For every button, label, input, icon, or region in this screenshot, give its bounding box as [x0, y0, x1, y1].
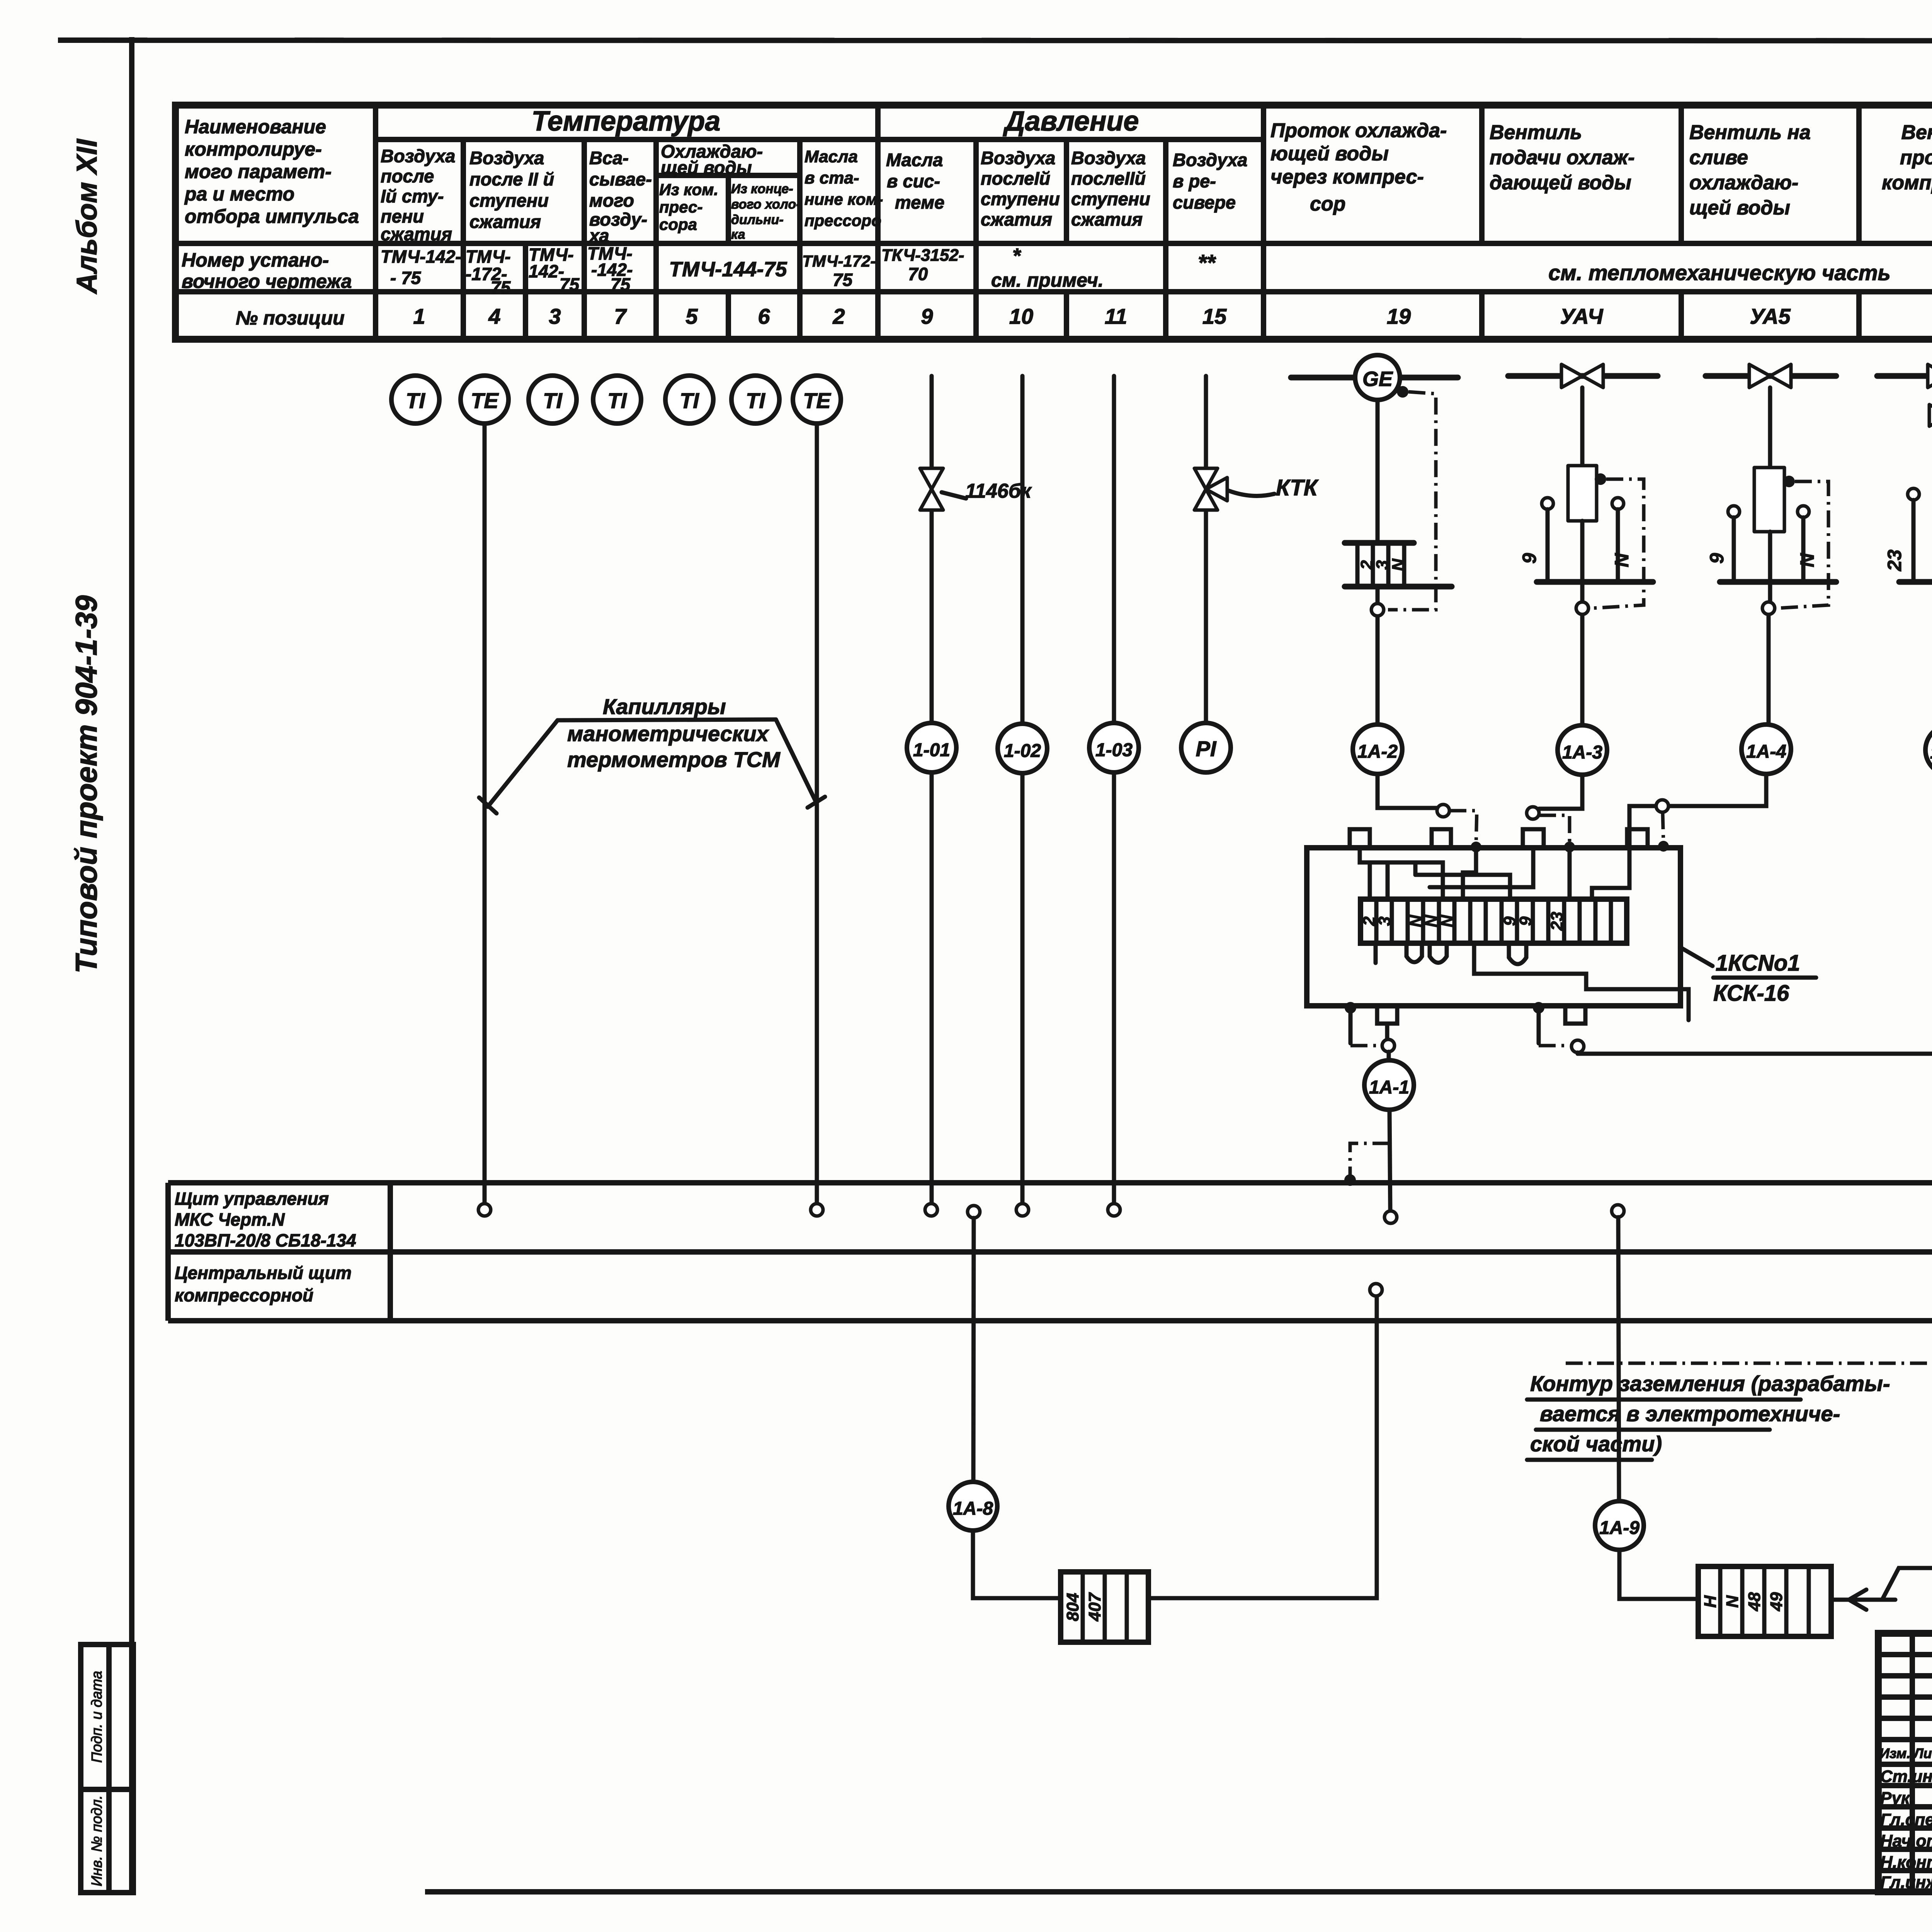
- svg-text:TI: TI: [543, 388, 563, 413]
- valve on pipe: [1928, 364, 1932, 388]
- wire 1А-3: [1580, 521, 1585, 725]
- svg-text:компрессора: компрессора: [1882, 172, 1932, 194]
- svg-text:ра и место: ра и место: [184, 183, 294, 205]
- instrument 1А-8: [949, 1482, 997, 1531]
- terminal strip: [1360, 899, 1627, 943]
- node on GE1 wire: [1371, 604, 1384, 616]
- label Щит управления МКС: [175, 1189, 356, 1305]
- instrument PI: [1181, 723, 1231, 772]
- instrument TI pos5: [665, 376, 713, 423]
- svg-text:сора: сора: [659, 215, 697, 233]
- svg-text:Гл.спец.: Гл.спец.: [1880, 1810, 1932, 1829]
- svg-text:48: 48: [1745, 1592, 1764, 1611]
- svg-text:TI: TI: [406, 388, 425, 413]
- instrument TE pos4: [461, 376, 509, 423]
- svg-text:нине ком-: нине ком-: [804, 190, 883, 208]
- svg-text:сжатия: сжатия: [381, 224, 452, 244]
- node on 1А-4 horizontal: [1656, 800, 1668, 812]
- dash-dot branch 1А-1 to panel line: [1344, 1143, 1389, 1186]
- svg-text:Воздуха: Воздуха: [469, 148, 544, 168]
- wire 1-02 manometer line: [1020, 376, 1025, 1205]
- node at central panel return: [1370, 1284, 1382, 1296]
- internal wiring of KSK-16: [1360, 848, 1689, 1020]
- node 1А-1 termination: [1384, 1211, 1397, 1223]
- svg-text:15: 15: [1202, 304, 1227, 328]
- valve КТК three-way on PI line: [1194, 468, 1319, 510]
- svg-text:- 75: - 75: [390, 268, 422, 288]
- wire capillary TE pos4 down to panel: [483, 423, 487, 1205]
- dash-dot from box to 1А-1 node: [1350, 1012, 1381, 1046]
- wire bottom tab to 1А-1: [1387, 1024, 1389, 1060]
- svg-text:Щит управления: Щит управления: [175, 1189, 329, 1209]
- node 1А-2 entry: [1437, 804, 1449, 817]
- svg-text:Проток охлажда-: Проток охлажда-: [1270, 119, 1447, 142]
- svg-text:142-: 142-: [529, 261, 564, 281]
- instrument GE1: [1355, 355, 1400, 400]
- svg-text:75: 75: [491, 277, 511, 298]
- svg-text:Вентиль: Вентиль: [1490, 121, 1582, 144]
- svg-text:мого парамет-: мого парамет-: [185, 161, 332, 182]
- svg-text:2: 2: [832, 304, 845, 328]
- svg-text:TI: TI: [746, 388, 765, 413]
- node on 1А-3 wire: [1576, 602, 1588, 614]
- svg-text:407: 407: [1085, 1592, 1104, 1622]
- svg-text:щей воды: щей воды: [661, 157, 752, 178]
- box 1КС№1 КСК-16 outline: [1307, 848, 1680, 1006]
- svg-text:после II й: после II й: [469, 169, 554, 189]
- svg-text:N: N: [1611, 553, 1633, 567]
- second blow-down valve: [1929, 405, 1932, 426]
- instrument 1-03: [1089, 723, 1139, 772]
- svg-text:сивере: сивере: [1173, 192, 1236, 213]
- wire to 1ШУ with arrow: [1831, 1590, 1895, 1610]
- svg-text:Вентиль: Вентиль: [1901, 121, 1932, 144]
- svg-text:Масла: Масла: [804, 147, 858, 166]
- svg-text:75: 75: [560, 274, 580, 294]
- table row 3: position numbers: [236, 304, 1932, 329]
- label В 1ШУ: [1882, 1538, 1932, 1600]
- terminal box N-N-48-49: [1698, 1566, 1831, 1636]
- dash-dot 1А-4 into box: [1658, 812, 1669, 852]
- svg-text:3: 3: [1375, 917, 1394, 926]
- solenoid actuator 1А-5: [1884, 388, 1932, 608]
- svg-text:УАЧ: УАЧ: [1560, 304, 1603, 328]
- panel band middle line: [168, 1249, 1932, 1255]
- svg-text:щей воды: щей воды: [1689, 197, 1790, 219]
- instrument 1А-1: [1364, 1060, 1414, 1110]
- svg-text:**: **: [1198, 250, 1216, 276]
- svg-text:Ст.инж.: Ст.инж.: [1880, 1767, 1932, 1786]
- wire 1А-4 to KSK: [1629, 774, 1766, 849]
- svg-text:804: 804: [1063, 1593, 1082, 1621]
- panel band bottom line: [168, 1318, 1932, 1323]
- svg-text:охлаждаю-: охлаждаю-: [1689, 172, 1798, 194]
- instrument TI pos7: [593, 376, 641, 423]
- svg-text:6: 6: [758, 304, 770, 328]
- panel label cell divider: [388, 1183, 393, 1321]
- svg-text:1А-2: 1А-2: [1357, 742, 1398, 762]
- svg-text:Из ком.: Из ком.: [659, 180, 718, 199]
- svg-text:Лист: Лист: [1913, 1745, 1932, 1761]
- svg-text:Рук.: Рук.: [1880, 1789, 1914, 1808]
- valve on pipe: [1749, 364, 1791, 388]
- svg-text:Инв. № подл.: Инв. № подл.: [89, 1795, 105, 1886]
- svg-text:Воздуха: Воздуха: [1173, 150, 1247, 170]
- svg-text:1А-9: 1А-9: [1599, 1518, 1639, 1538]
- svg-text:ТМЧ-172-: ТМЧ-172-: [802, 252, 876, 270]
- instrument TI pos6: [731, 376, 779, 423]
- svg-text:сжатия: сжатия: [1071, 209, 1143, 230]
- svg-text:сор: сор: [1310, 193, 1345, 215]
- svg-text:Воздуха: Воздуха: [1071, 148, 1146, 168]
- svg-text:3: 3: [549, 304, 561, 328]
- svg-text:Номер устано-: Номер устано-: [182, 249, 329, 271]
- wire 1А-5 down to KSK feeder: [1578, 775, 1932, 1054]
- table row 2: drawing numbers: [182, 243, 1932, 298]
- svg-text:сывае-: сывае-: [589, 169, 652, 189]
- dash-dot from box to feeder node: [1539, 1012, 1571, 1046]
- svg-text:Гл.инж.пр: Гл.инж.пр: [1880, 1873, 1932, 1892]
- svg-text:11: 11: [1105, 304, 1127, 328]
- svg-text:ской части): ской части): [1530, 1432, 1662, 1456]
- svg-text:PI: PI: [1196, 736, 1217, 761]
- wire 1А-9 down: [1618, 1217, 1698, 1599]
- svg-text:ТКЧ-3152-: ТКЧ-3152-: [881, 246, 964, 265]
- svg-text:1-02: 1-02: [1004, 741, 1041, 761]
- instrument 1-01: [907, 723, 956, 772]
- solenoid actuator 1А-4: [1706, 388, 1836, 608]
- svg-text:вочного чертежа: вочного чертежа: [182, 270, 352, 292]
- svg-text:см. тепломеханическую часть: см. тепломеханическую часть: [1548, 260, 1891, 285]
- svg-text:мого: мого: [589, 190, 634, 211]
- svg-text:ТМЧ-144-75: ТМЧ-144-75: [669, 258, 787, 281]
- wire GE1 down: [1376, 400, 1380, 723]
- wire 1А-4: [1769, 532, 1770, 724]
- svg-text:Центральный щит: Центральный щит: [175, 1263, 352, 1283]
- svg-text:МКС Черт.N: МКС Черт.N: [175, 1209, 285, 1230]
- svg-text:9: 9: [1706, 553, 1728, 564]
- svg-text:TI: TI: [607, 388, 627, 413]
- node feeder 1А-5: [1571, 1040, 1584, 1053]
- ground dash-dot line: [1566, 1362, 1932, 1365]
- svg-text:сжатия: сжатия: [981, 209, 1052, 230]
- instrument 1А-9: [1595, 1501, 1644, 1550]
- wire 1А-3 to KSK: [1539, 775, 1582, 809]
- svg-text:прес-: прес-: [659, 198, 703, 216]
- svg-text:послеIIй: послеIIй: [1071, 168, 1146, 189]
- svg-text:сливе: сливе: [1689, 146, 1748, 169]
- svg-text:№ позиции: № позиции: [236, 307, 345, 329]
- svg-text:термометров ТСМ: термометров ТСМ: [567, 747, 781, 772]
- svg-text:19: 19: [1387, 304, 1411, 328]
- svg-text:Типовой проект 904-1-39: Типовой проект 904-1-39: [69, 595, 103, 973]
- svg-text:Вса-: Вса-: [589, 148, 629, 168]
- svg-text:N: N: [1723, 1595, 1742, 1608]
- svg-text:послеIй: послеIй: [981, 168, 1050, 189]
- svg-text:75: 75: [611, 274, 631, 294]
- instrument 1А-2: [1353, 724, 1402, 774]
- svg-text:сжатия: сжатия: [469, 211, 541, 232]
- svg-text:Капилляры: Капилляры: [603, 694, 726, 719]
- svg-text:70: 70: [908, 264, 928, 284]
- cable tabs on bottom: [1377, 1006, 1585, 1024]
- svg-text:дающей воды: дающей воды: [1490, 172, 1631, 194]
- svg-text:КСК-16: КСК-16: [1713, 981, 1789, 1006]
- table header texts: [184, 106, 1932, 246]
- dash-dot link GE1 to node: [1388, 386, 1436, 610]
- svg-text:подачи охлаж-: подачи охлаж-: [1490, 146, 1634, 169]
- svg-text:дильни-: дильни-: [731, 213, 784, 227]
- node 1А-1 top: [1382, 1039, 1395, 1052]
- svg-text:Из конце-: Из конце-: [731, 182, 793, 196]
- label 1КС№1 КСК-16: [1680, 947, 1816, 1006]
- solenoid actuator 1А-3: [1519, 388, 1653, 608]
- svg-text:Наименование: Наименование: [185, 116, 326, 138]
- left margin stamp box: [81, 1645, 133, 1893]
- svg-text:N: N: [1796, 553, 1818, 567]
- instrument TI pos1: [391, 376, 439, 423]
- svg-text:TE: TE: [803, 388, 831, 413]
- svg-text:10: 10: [1009, 304, 1033, 328]
- svg-text:TE: TE: [471, 388, 499, 413]
- svg-text:Альбом ХII: Альбом ХII: [71, 138, 103, 294]
- pipe stubs at GE1: [1291, 375, 1458, 381]
- svg-text:контролируе-: контролируе-: [185, 138, 322, 160]
- label Контур заземления: [1527, 1371, 1890, 1460]
- svg-text:Масла: Масла: [886, 150, 943, 170]
- pipe line: [1706, 373, 1836, 379]
- sheet frame left vertical: [129, 37, 134, 1892]
- sheet frame bottom edge: [425, 1889, 1932, 1895]
- svg-text:1А-4: 1А-4: [1746, 742, 1786, 762]
- svg-text:Давление: Давление: [1003, 106, 1139, 137]
- svg-text:ющей воды: ющей воды: [1270, 143, 1389, 165]
- svg-text:1А-5: 1А-5: [1930, 742, 1932, 763]
- svg-text:компрессорной: компрессорной: [175, 1285, 313, 1305]
- svg-text:1А-3: 1А-3: [1562, 742, 1602, 763]
- svg-text:манометрических: манометрических: [567, 721, 770, 746]
- wire node to feeder line: [1576, 1053, 1580, 1054]
- svg-text:через компрес-: через компрес-: [1270, 166, 1424, 188]
- svg-text:5: 5: [685, 304, 698, 328]
- svg-text:Н.контр.: Н.контр.: [1880, 1853, 1932, 1872]
- svg-text:ТМЧ-142-: ТМЧ-142-: [381, 247, 461, 267]
- instrument TE pos2: [793, 376, 841, 423]
- node on 1А-4 wire: [1762, 602, 1775, 614]
- svg-text:1: 1: [413, 304, 425, 328]
- svg-text:103ВП-20/8 СБ18-134: 103ВП-20/8 СБ18-134: [175, 1230, 356, 1250]
- sheet frame top edge: [58, 40, 1932, 41]
- terminal box 804/407: [1061, 1572, 1148, 1642]
- svg-text:Н: Н: [1701, 1595, 1720, 1608]
- svg-text:GE: GE: [1362, 367, 1393, 391]
- svg-text:УА5: УА5: [1750, 304, 1791, 328]
- svg-text:23: 23: [1884, 549, 1905, 571]
- junction dot on box bottom left: [1345, 1002, 1356, 1014]
- svg-text:ха: ха: [588, 225, 609, 246]
- svg-text:1А-1: 1А-1: [1369, 1077, 1409, 1098]
- termination nodes below top panel line: [478, 1204, 491, 1216]
- svg-text:1КСNo1: 1КСNo1: [1716, 951, 1800, 976]
- wire 1А-1 down to panel: [1389, 1110, 1390, 1211]
- svg-text:Контур заземления (разрабаты-: Контур заземления (разрабаты-: [1530, 1371, 1890, 1396]
- svg-text:отбора импульса: отбора импульса: [185, 206, 359, 227]
- pipe line: [1877, 373, 1932, 379]
- valve 1146бк on wire 1-01: [920, 468, 1032, 510]
- svg-text:Воздуха: Воздуха: [381, 146, 455, 166]
- node 1А-3 entry: [1527, 807, 1539, 819]
- valve on pipe: [1561, 364, 1603, 388]
- svg-text:N: N: [1389, 558, 1408, 571]
- svg-text:вается в электротехниче-: вается в электротехниче-: [1540, 1401, 1840, 1426]
- junction dot on box bottom right: [1533, 1002, 1544, 1014]
- wire 1-03 manometer line: [1112, 376, 1116, 1205]
- junction box 2-3-N at GE1: [1345, 543, 1452, 587]
- capillary label with leaders: [479, 694, 825, 813]
- svg-text:1-03: 1-03: [1095, 740, 1133, 760]
- svg-text:Температура: Температура: [532, 106, 721, 137]
- svg-text:*: *: [1012, 244, 1022, 267]
- wire 1А-8 loop: [973, 1218, 1377, 1598]
- svg-text:Изм.: Изм.: [1879, 1745, 1910, 1761]
- instrument 1А-5: [1925, 725, 1932, 775]
- svg-text:КТК: КТК: [1276, 475, 1319, 500]
- wire PI impulse line: [1204, 376, 1208, 723]
- svg-text:9: 9: [1519, 553, 1540, 564]
- svg-text:см. примеч.: см. примеч.: [991, 269, 1104, 291]
- dash-dot 1А-2 into box: [1449, 811, 1481, 852]
- svg-text:7: 7: [614, 304, 627, 328]
- svg-text:ступени: ступени: [469, 190, 549, 211]
- svg-text:ступени: ступени: [1071, 189, 1150, 209]
- instrument 1А-4: [1742, 724, 1791, 774]
- node 1А-8 at panel: [968, 1206, 980, 1218]
- svg-text:1-01: 1-01: [913, 740, 950, 760]
- panel band left edge: [165, 1183, 171, 1321]
- svg-text:23: 23: [1548, 912, 1566, 931]
- wire capillary TE pos2 down to panel: [815, 423, 819, 1205]
- svg-text:в сис-: в сис-: [887, 171, 940, 191]
- svg-text:в ре-: в ре-: [1173, 171, 1216, 191]
- cable tabs on top: [1350, 829, 1648, 848]
- svg-text:N: N: [1438, 915, 1457, 927]
- svg-text:продувки: продувки: [1900, 146, 1932, 169]
- svg-text:Iй сту-: Iй сту-: [381, 186, 444, 206]
- svg-text:теме: теме: [895, 192, 944, 213]
- svg-text:ступени: ступени: [981, 189, 1060, 209]
- wire 1А-2 to KSK: [1378, 774, 1437, 808]
- panel band top line: [168, 1180, 1932, 1185]
- instrument 1А-3: [1558, 725, 1607, 775]
- svg-text:4: 4: [488, 304, 500, 328]
- svg-text:49: 49: [1767, 1592, 1786, 1611]
- node 1А-9 at panel: [1612, 1205, 1624, 1217]
- dash-dot 1А-3 into box: [1539, 815, 1575, 852]
- svg-text:75: 75: [833, 270, 853, 290]
- svg-text:TI: TI: [680, 388, 699, 413]
- title block texts: [1879, 1745, 1932, 1892]
- instrument TI pos3: [529, 376, 577, 423]
- svg-text:1А-8: 1А-8: [953, 1498, 993, 1519]
- svg-text:Воздуха: Воздуха: [981, 148, 1055, 168]
- svg-text:после: после: [381, 166, 434, 186]
- wire 1-01 manometer line: [930, 376, 934, 1205]
- svg-text:в ста-: в ста-: [804, 168, 859, 187]
- svg-text:вого холо-: вого холо-: [731, 197, 801, 212]
- svg-text:9: 9: [1516, 916, 1535, 926]
- svg-text:Подп. и дата: Подп. и дата: [89, 1671, 105, 1763]
- instrument 1-02: [998, 724, 1047, 773]
- svg-text:ка: ка: [731, 227, 745, 242]
- svg-text:9: 9: [921, 304, 933, 328]
- pipe line: [1508, 373, 1658, 379]
- svg-text:Нач.отд.: Нач.отд.: [1880, 1832, 1932, 1850]
- svg-text:прессоро: прессоро: [804, 211, 881, 230]
- svg-text:Вентиль на: Вентиль на: [1689, 121, 1811, 144]
